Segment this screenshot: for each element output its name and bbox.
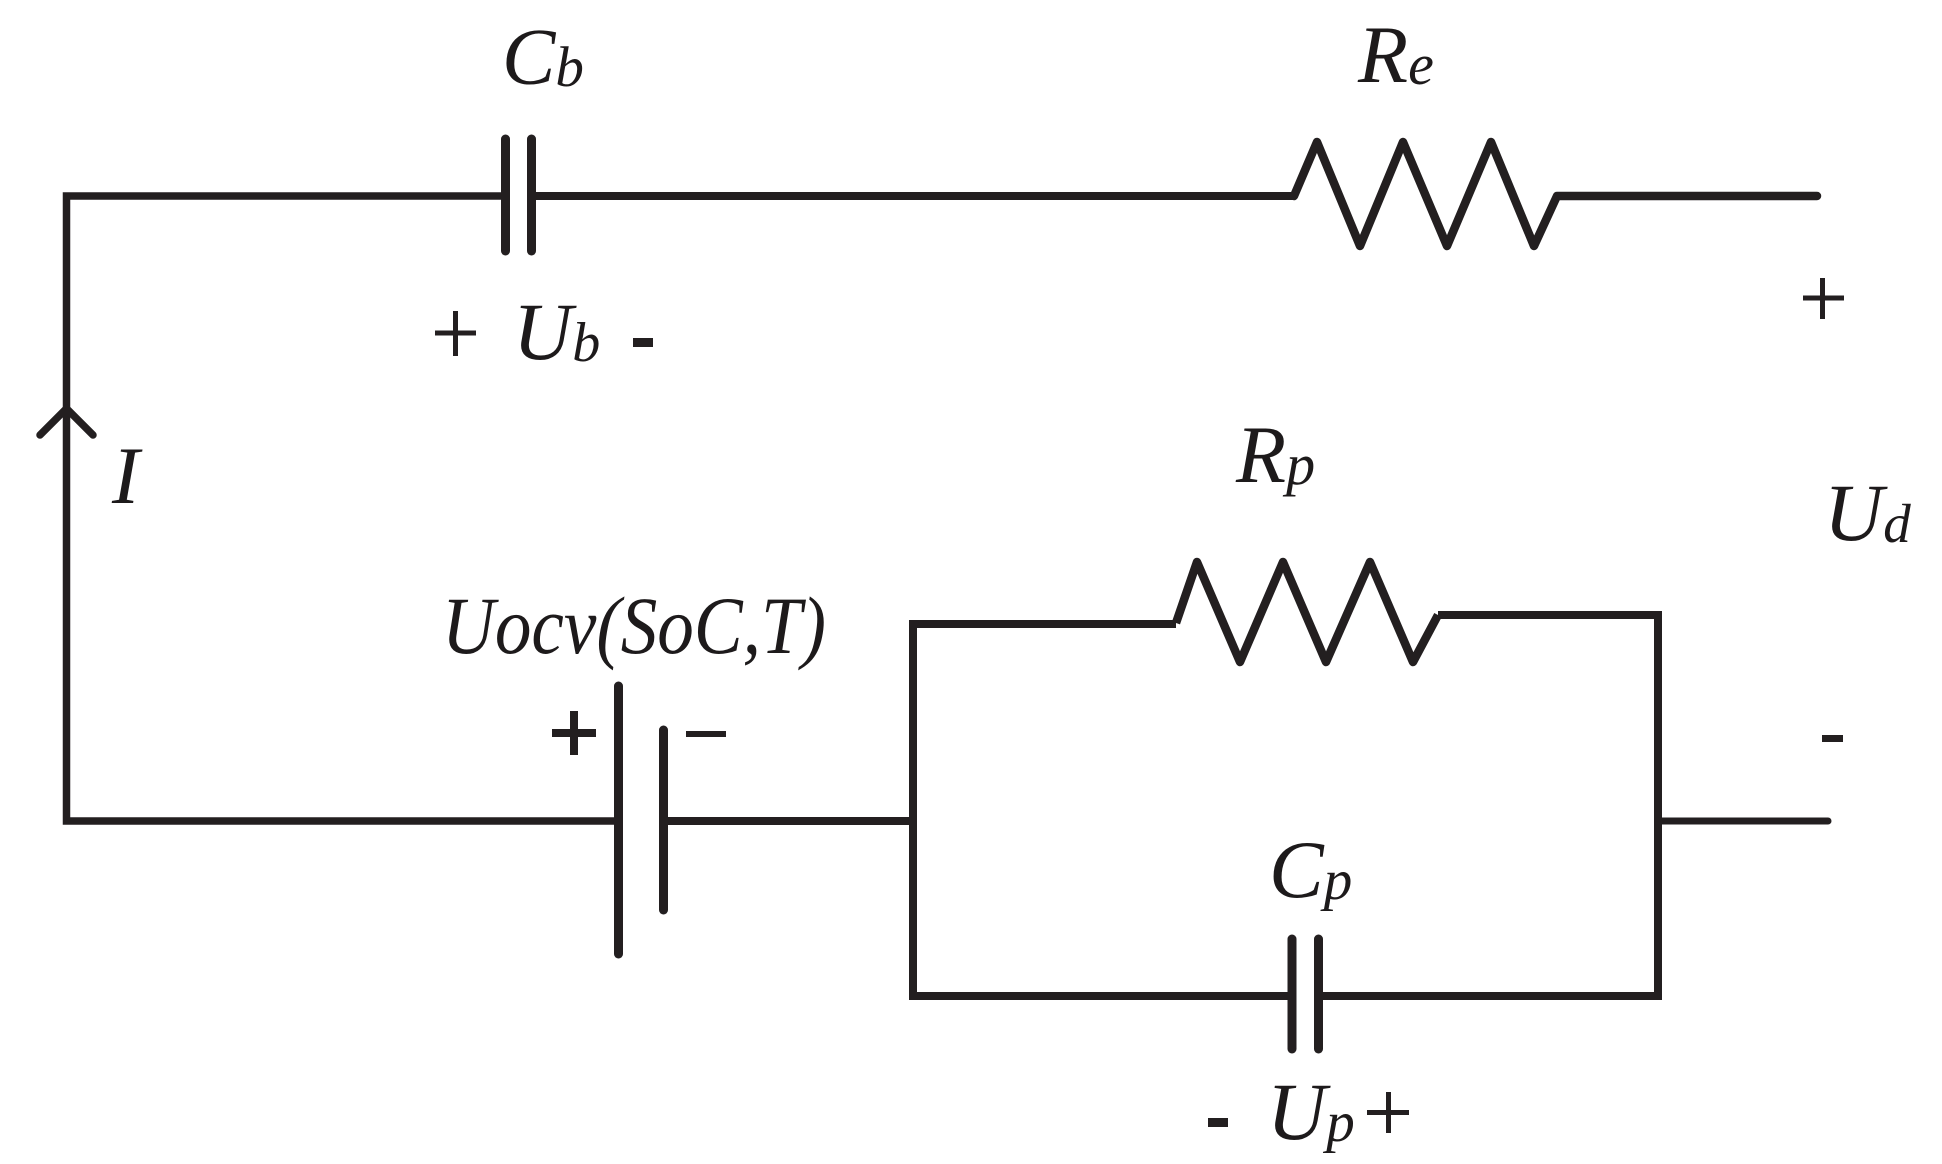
svg-text:I: I [111, 430, 143, 521]
svg-text:Up: Up [1267, 1066, 1355, 1157]
svg-text:Rp: Rp [1235, 409, 1315, 500]
svg-text:Re: Re [1357, 9, 1434, 100]
svg-text:Ud: Ud [1824, 467, 1911, 558]
svg-text:Cb: Cb [502, 14, 584, 102]
svg-text:Cp: Cp [1269, 824, 1352, 915]
svg-text:Ub: Ub [513, 286, 600, 377]
svg-text:Uocv(SoC,T): Uocv(SoC,T) [442, 580, 826, 671]
